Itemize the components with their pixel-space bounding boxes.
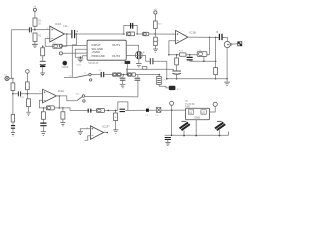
svg-text:3: 3 [39, 91, 40, 93]
wire filter rail right [138, 74, 161, 76]
wire jack sleeve down [226, 48, 228, 79]
node junction [215, 37, 217, 39]
wire to IC1A input [13, 93, 43, 95]
node junction [203, 61, 205, 63]
capacitor C5 [137, 75, 139, 78]
wire [149, 109, 157, 111]
wire IC11 minus input [85, 136, 91, 141]
resistor R8 [132, 73, 135, 76]
wire [34, 41, 36, 44]
node supply junction [155, 33, 157, 35]
node junction R18 tap [115, 110, 117, 112]
wire [54, 107, 63, 109]
node VCC3 terminal [154, 11, 157, 14]
resistor R16 chain right [61, 112, 65, 119]
wire IC11 output stub [104, 132, 108, 134]
capacitor C20 output dark [219, 34, 222, 40]
node RC junction left [123, 33, 125, 35]
ground [11, 133, 15, 136]
wire RC bridge [124, 25, 137, 34]
resistor R5 [113, 73, 117, 76]
wire [26, 73, 28, 82]
wire feedback drop [45, 34, 67, 46]
wire [154, 61, 167, 79]
wire [42, 56, 44, 61]
resistor R14 feedback [46, 106, 54, 110]
wire riser to output [58, 96, 60, 108]
node mid terminal circle [26, 70, 30, 74]
node junction [195, 135, 197, 137]
resistor R23 gain chain [176, 55, 178, 58]
svg-text:IC10: IC10 [55, 22, 61, 26]
capacitor C14 electrolytic [135, 51, 142, 59]
wire left bus [10, 30, 12, 79]
connector X1 input jack [5, 76, 9, 80]
node filter junction A [123, 74, 125, 76]
wire [154, 14, 156, 21]
wire [161, 109, 186, 111]
wire ground rail [167, 78, 227, 80]
wire sig-gnd loop [75, 49, 87, 57]
capacitor C13 below rail [165, 138, 171, 140]
op-amp IC11 [90, 126, 103, 140]
svg-text:+5VDC: +5VDC [92, 50, 101, 54]
wire [223, 37, 228, 41]
wire [12, 90, 14, 114]
connector X2 output [238, 42, 242, 46]
wire IC1A feedback [39, 100, 46, 108]
wire IC1B minus [169, 41, 176, 55]
capacitor C11 on wire [120, 109, 126, 111]
svg-text:C10: C10 [63, 25, 68, 28]
svg-text:PWR: PWR [185, 106, 191, 108]
wire capB stem to S1b line [137, 81, 139, 97]
resistor R22 [179, 53, 186, 56]
capacitor C22 input [18, 91, 20, 96]
wire [9, 78, 13, 80]
ground [40, 73, 45, 76]
wire [121, 74, 128, 76]
node terminal circle VCC2 [213, 102, 217, 106]
node IC10 out junction [66, 33, 68, 35]
node junction [219, 135, 221, 137]
node C10 output tap junction [76, 33, 78, 35]
node junction [171, 135, 173, 137]
ground [113, 130, 118, 133]
ground [224, 82, 230, 85]
module U2 power board [186, 108, 210, 120]
svg-text:IC11: IC11 [102, 124, 108, 128]
node left corner junction [12, 93, 14, 95]
node junction C [62, 107, 64, 109]
wire [42, 67, 44, 73]
ground [78, 131, 84, 134]
capacitor C3 [101, 72, 104, 77]
node junction [226, 78, 228, 80]
ground [165, 142, 170, 145]
wire [28, 107, 30, 112]
wire main signal line [75, 33, 124, 35]
ground [153, 49, 158, 52]
node bus junction [12, 78, 14, 80]
node junction [209, 37, 211, 39]
node junction [108, 110, 110, 112]
wire [32, 29, 50, 31]
wire [137, 33, 143, 35]
wire [125, 109, 146, 111]
node bridge junction [126, 69, 127, 70]
node fb node [168, 54, 170, 56]
ground [77, 57, 83, 62]
node junction [215, 61, 217, 63]
svg-text:+V: +V [154, 8, 157, 11]
node junction [27, 93, 29, 95]
svg-text:7: 7 [185, 35, 186, 37]
wire [91, 74, 100, 76]
resistor R10 [11, 83, 15, 91]
node junction [215, 78, 217, 80]
resistor R11 [26, 82, 30, 90]
node filter out junction [158, 74, 160, 76]
svg-text:1: 1 [62, 32, 63, 34]
switch S1b [77, 97, 82, 101]
connector MIC dark [63, 61, 67, 65]
wire [126, 64, 128, 75]
node junction [171, 109, 173, 111]
resistor R17 [97, 109, 105, 113]
wire [63, 44, 88, 46]
node junction [189, 54, 191, 56]
diode D1 dark [180, 122, 190, 130]
wire long vertical from output [215, 37, 217, 67]
op-amp IC10 [50, 26, 65, 42]
resistor R1 [33, 18, 37, 26]
amplifier module U3 [87, 40, 126, 60]
svg-text:on: on [84, 72, 86, 74]
svg-text:INPUT: INPUT [92, 43, 101, 47]
resistor R13 [27, 99, 31, 107]
wire [63, 52, 88, 54]
resistor R15 chain left [41, 112, 45, 120]
resistor R18 [114, 113, 118, 121]
wire fb rail riser [209, 37, 211, 55]
wire IC11 plus input [80, 129, 90, 131]
svg-text:1: 1 [54, 94, 55, 96]
ground [136, 64, 142, 67]
capacitor C4 to ground [122, 75, 125, 78]
resistor R2 [33, 33, 37, 41]
svg-text:OUT1: OUT1 [112, 43, 121, 47]
svg-text:GND: GND [77, 64, 82, 66]
svg-text:VOL: VOL [197, 50, 202, 52]
node terminal circle [170, 101, 174, 105]
wire [135, 74, 138, 76]
op-amp IC1A [43, 89, 57, 103]
node feedback junction [42, 46, 44, 48]
capacitor C19 electrolytic [176, 65, 178, 71]
wire [154, 28, 156, 37]
capacitor C1 [29, 27, 31, 32]
wire IC1B output [188, 36, 219, 38]
connector J2 ring [59, 52, 62, 55]
wire bottom chain [63, 108, 88, 111]
node junction [80, 56, 82, 58]
wire mid rail [190, 60, 216, 62]
svg-text:5: 5 [172, 33, 173, 35]
node VCC1 terminal [33, 8, 36, 11]
capacitor C16 on bridge dark [131, 23, 133, 29]
node fb junction A [43, 107, 45, 109]
svg-text:GND: GND [194, 115, 200, 119]
wire bus down [11, 78, 13, 83]
wire [34, 11, 36, 18]
ground [60, 123, 65, 126]
resistor R24 [214, 68, 218, 75]
svg-text:3: 3 [47, 28, 48, 30]
wire [230, 43, 237, 45]
wire [91, 109, 96, 111]
ground [41, 132, 46, 136]
wire corner down [171, 110, 173, 135]
wire [34, 26, 36, 30]
node junction [166, 78, 168, 80]
speaker LS1 dark [146, 109, 149, 112]
svg-text:OUT2: OUT2 [112, 54, 121, 58]
wire module stem [195, 120, 197, 136]
wire OUT1 [126, 45, 138, 51]
capacitor C7 [40, 123, 46, 126]
wire OUT2 [126, 56, 150, 62]
connector J2 tip [59, 44, 62, 47]
resistor R9 on bridge [142, 67, 147, 70]
ground [32, 44, 38, 47]
wire [155, 46, 157, 49]
wire filter bypass bridge [127, 69, 173, 74]
capacitor C10 polarized [72, 30, 75, 38]
wire bottom rail [165, 131, 229, 135]
node RC junction right [136, 33, 138, 35]
wire pot wiper [203, 56, 205, 61]
wire [149, 33, 176, 35]
resistor R21 [154, 21, 158, 28]
resistor R20 [143, 32, 149, 36]
resistor R7 [128, 73, 132, 76]
capacitor C2 electrolytic [40, 60, 46, 62]
connector J3 jack [224, 41, 230, 47]
node output junction [59, 95, 61, 97]
capacitor C15 [150, 58, 153, 64]
diode D2 dark [215, 122, 225, 130]
resistor R19 baseline [126, 32, 134, 36]
node junction [127, 74, 129, 76]
wire gain chain [42, 46, 44, 48]
wire [26, 90, 28, 99]
wire S1b to filter chain [85, 95, 138, 98]
capacitor C12 boxed [156, 108, 161, 113]
resistor R3 feedback [53, 44, 62, 48]
svg-text:IC1A: IC1A [58, 89, 64, 93]
node fb junction B [59, 107, 61, 109]
capacitor C18 dark [189, 55, 191, 57]
wire [105, 109, 118, 111]
resistor R6 [117, 73, 121, 76]
capacitor C17 boxed [154, 37, 158, 45]
ground [120, 84, 126, 88]
wire IC1A out to switch S1b [56, 96, 76, 101]
capacitor C6 lower [11, 115, 14, 123]
svg-text:+V: +V [33, 6, 36, 9]
wire tap riser to switch S1a [72, 34, 76, 77]
op-amp IC1B [176, 30, 188, 43]
node junction [176, 78, 178, 80]
wire fb rail [169, 54, 210, 56]
capacitor C9 [88, 109, 91, 113]
svg-text:IC1B: IC1B [189, 30, 195, 34]
wire output [64, 33, 71, 35]
inductor L1 dark [125, 61, 131, 64]
svg-text:PWR-GND: PWR-GND [92, 54, 105, 58]
wire input line [11, 29, 29, 31]
node J1 junction [34, 29, 36, 31]
ground [26, 112, 31, 115]
wire [159, 85, 169, 88]
wire filter rail [104, 74, 112, 76]
resistor R4 [41, 48, 45, 56]
potentiometer P1 [197, 52, 207, 57]
transistor Q1 element [158, 75, 160, 77]
node junction [183, 135, 185, 137]
svg-text:SM-08-05: SM-08-05 [88, 63, 99, 65]
node indicator blob [169, 86, 176, 90]
svg-text:MIC: MIC [62, 67, 66, 69]
wire bypass bracket [118, 102, 128, 111]
node output dot [107, 132, 108, 133]
